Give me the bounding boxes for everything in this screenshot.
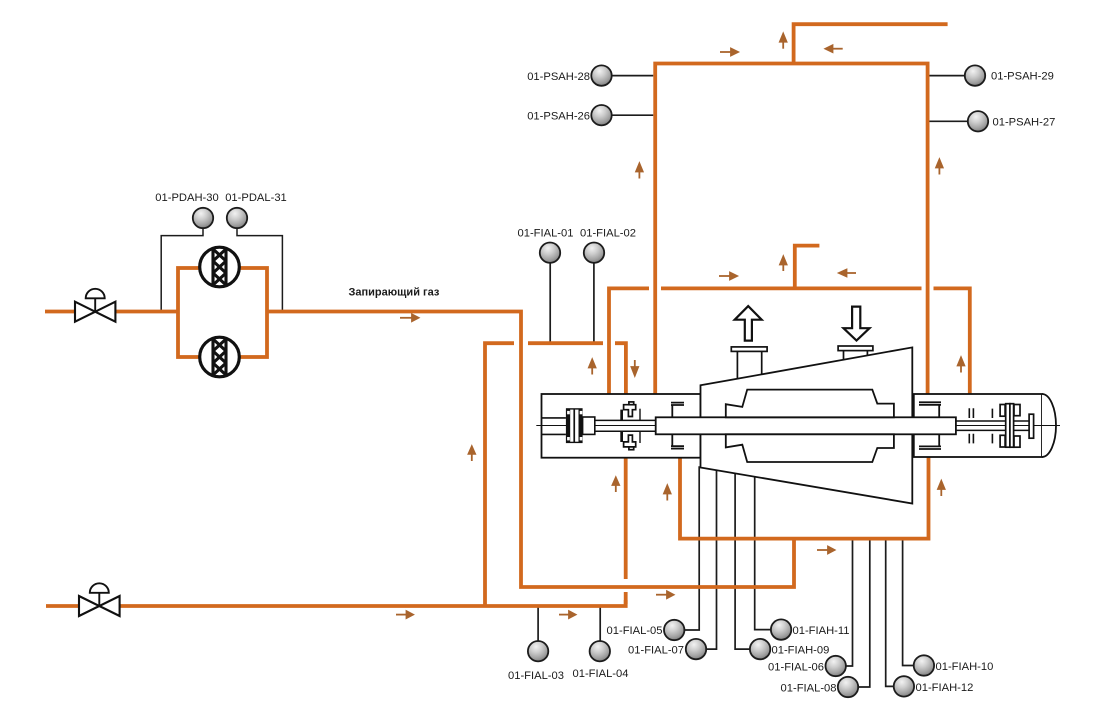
flow arrow up beside y288 vent stub (782, 264, 784, 272)
coupling C2 bolts (1000, 405, 1005, 417)
svg-text:01-PDAH-30: 01-PDAH-30 (155, 192, 218, 204)
wire nitrogen line left of valve V2 (46, 604, 80, 608)
left seal housing box (542, 394, 701, 458)
wire DP tap left (PDAH-30 to main line) (161, 228, 203, 311)
wire vent header y288 right segment down into right seal box (934, 288, 970, 394)
coupling C1 body (566, 408, 583, 443)
wire vent stub at x794 up and right (795, 246, 820, 289)
wire 01-PSAH-28 signal (612, 75, 654, 77)
instrument 01-FIAH-10 (914, 655, 934, 675)
compressor casing trapezoid (701, 347, 913, 503)
svg-text:01-PSAH-29: 01-PSAH-29 (991, 71, 1054, 83)
wire 01-FIAL-08 signal (858, 539, 870, 687)
flow arrow right on bottom box line (817, 549, 829, 551)
right end cap (1042, 394, 1056, 457)
instrument 01-FIAL-06 (826, 656, 846, 676)
main rotor shaft (656, 417, 956, 434)
wire 01-PSAH-29 signal (930, 75, 965, 77)
coupling C2 flanges (1006, 404, 1010, 448)
svg-text:01-FIAL-06: 01-FIAL-06 (768, 662, 824, 674)
wire 01-FIAH-09 signal (735, 472, 750, 649)
suction nozzle pipe (737, 351, 761, 379)
intermediate shaft (595, 420, 656, 431)
instrument 01-PDAL-31 (227, 208, 247, 228)
wire seal supply header y343 right segment into seal box top (615, 343, 626, 394)
instrument 01-FIAH-12 (894, 676, 914, 696)
flow arrow left on outer box top (832, 48, 843, 50)
wire seal supply header y343 middle segment (528, 341, 603, 345)
labyrinth seal left box upper (671, 403, 684, 418)
instrument 01-PSAH-28 (591, 65, 611, 85)
control valve V2 (79, 583, 120, 616)
svg-text:01-FIAL-07: 01-FIAL-07 (628, 645, 684, 657)
labyrinth seal right box lower (919, 434, 941, 449)
svg-text:01-PSAH-26: 01-PSAH-26 (527, 111, 590, 123)
flow arrow up beside x969 vent riser (960, 365, 962, 373)
flow arrow up beside x485 riser (471, 453, 473, 462)
instrument 01-FIAL-04 (590, 641, 610, 661)
instrument 01-FIAH-11 (771, 619, 791, 639)
wire 01-FIAL-07 signal (706, 469, 716, 649)
wire 01-FIAL-05 signal (684, 466, 699, 630)
discharge nozzle pipe (844, 351, 868, 360)
svg-text:01-PSAH-27: 01-PSAH-27 (993, 117, 1056, 129)
wire nitrogen line from valve V2 to riser x625 (119, 600, 626, 606)
flow arrow right on nitrogen line after valve (396, 614, 408, 616)
flow-in big up arrow (735, 306, 762, 341)
svg-text:01-FIAL-08: 01-FIAL-08 (781, 683, 837, 695)
wire filter parallel loop (178, 268, 267, 357)
wire 01-FIAH-11 signal (755, 476, 771, 630)
svg-text:01-FIAL-02: 01-FIAL-02 (580, 228, 636, 240)
flow arrow up beside top vent stub (782, 41, 784, 49)
flow arrow up beside x680 bottom-box riser (666, 493, 668, 501)
flow arrow right on vent header y288 (719, 275, 731, 277)
wire 01-PSAH-27 signal (930, 120, 968, 122)
wire 01-FIAH-12 signal (886, 539, 894, 686)
wire secondary vent box (outer loop) (655, 64, 927, 395)
svg-text:01-PSAH-28: 01-PSAH-28 (527, 71, 590, 83)
svg-text:01-FIAL-01: 01-FIAL-01 (518, 228, 574, 240)
svg-text:01-FIAH-11: 01-FIAH-11 (793, 625, 850, 637)
flow arrow up beside outer box left edge (638, 171, 640, 179)
instrument 01-FIAL-02 (584, 243, 604, 263)
instrument 01-FIAL-08 (838, 677, 858, 697)
flow arrow up beside x625 lower riser (615, 484, 617, 492)
wire DP tap right (PDAL-31 to main line) (237, 228, 282, 311)
svg-text:Запирающий газ: Запирающий газ (349, 287, 440, 299)
bearing ticks (969, 408, 992, 443)
instrument 01-FIAH-09 (750, 639, 770, 659)
wire top vent to atmosphere (794, 24, 948, 63)
svg-text:01-FIAH-09: 01-FIAH-09 (772, 645, 830, 657)
svg-text:01-FIAL-03: 01-FIAL-03 (508, 670, 564, 682)
instrument 01-PSAH-29 (965, 65, 985, 85)
wire main sealing-gas line valve V1 to filter loop (114, 310, 178, 314)
wire 01-FIAL-01 signal (549, 263, 551, 343)
wire riser x625 lower part (624, 592, 628, 604)
dry gas seal cartridge upper (620, 402, 640, 421)
rotor drum lower (726, 434, 894, 462)
flow arrow down beside x625 supply drop (634, 360, 636, 368)
wire 01-FIAL-04 signal (599, 606, 601, 641)
wire 01-PSAH-26 signal (612, 114, 654, 116)
wire seal supply header y343 left segment (485, 343, 514, 606)
rotor drum upper (726, 390, 894, 418)
flow arrow right on y587 line (656, 594, 668, 596)
discharge nozzle flange (838, 346, 873, 351)
wire vent header y288 middle segment (661, 286, 922, 290)
labyrinth seal right box upper (919, 402, 941, 417)
instrument 01-FIAL-05 (664, 620, 684, 640)
flow-out big down arrow (844, 307, 870, 341)
instrument 01-PSAH-27 (968, 111, 988, 131)
instrument 01-PSAH-26 (591, 105, 611, 125)
svg-text:01-FIAL-04: 01-FIAL-04 (573, 668, 629, 680)
flow arrow left on vent header y288 (846, 272, 857, 274)
wire primary vent riser x609 and header corner (609, 288, 649, 394)
wire riser x625 from bottom line into left seal box, upper part (624, 458, 628, 579)
dry gas seal cartridge lower (620, 431, 640, 450)
filter F2 bottom (200, 337, 240, 377)
svg-text:01-FIAL-05: 01-FIAL-05 (607, 625, 663, 637)
flow arrow up beside x609 vent riser (591, 367, 593, 375)
flow arrow right on nitrogen line after T (559, 614, 571, 616)
wire main sealing-gas line left of valve V1 (45, 310, 77, 314)
right bearing housing box (914, 394, 1042, 457)
suction nozzle flange (731, 347, 767, 352)
flow arrow up beside outer box right edge (938, 167, 940, 175)
wire 01-FIAL-02 signal (593, 263, 595, 343)
instrument 01-FIAL-07 (686, 639, 706, 659)
svg-text:01-PDAL-31: 01-PDAL-31 (225, 192, 287, 204)
wire 01-FIAL-03 signal (537, 606, 539, 641)
flow arrow right on main line (400, 317, 414, 319)
instrument 01-PDAH-30 (193, 208, 213, 228)
labyrinth seal left box lower (671, 434, 684, 448)
instrument 01-FIAL-03 (528, 641, 548, 661)
wire 01-FIAL-06 signal (846, 539, 853, 666)
svg-text:01-FIAH-12: 01-FIAH-12 (916, 682, 974, 694)
shaft centerline (536, 425, 1060, 427)
wire separation gas bottom box (680, 457, 929, 539)
thrust plate (1029, 414, 1034, 438)
wire main sealing-gas line, down at x521, right along y587, riser to panel bottom (267, 312, 794, 588)
flow arrow up beside x928 bottom-box riser (940, 488, 942, 496)
driver-side shaft stub (542, 418, 566, 435)
coupling C1 hub (583, 417, 595, 434)
instrument 01-FIAL-01 (540, 243, 560, 263)
flow arrow right on outer box top (720, 51, 732, 53)
wire 01-FIAH-10 signal (903, 539, 914, 666)
control valve V1 (75, 289, 115, 322)
svg-text:01-FIAH-10: 01-FIAH-10 (936, 661, 994, 673)
right thin shaft (956, 421, 1029, 430)
filter F1 top (200, 247, 240, 287)
